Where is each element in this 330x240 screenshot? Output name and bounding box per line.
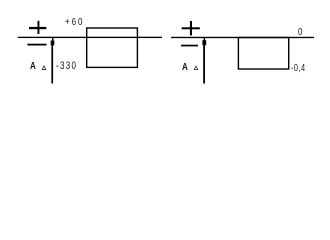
plus sign (right diagram) vertical bar [190,21,192,35]
label -330 (lower deviation, left diagram) [56,61,77,71]
label A (datum, right diagram) [182,63,188,73]
wire: zero line left group [0,0,330,95]
label -0,4 (lower deviation, right diagram) [291,64,305,74]
label 0 (upper deviation, right diagram) [298,28,302,38]
minus sign (right diagram) [181,45,198,47]
datum triangle (right diagram) [194,66,198,70]
arrow stem (left diagram) [51,44,53,84]
arrow head (right diagram, pointing up to zero line) [204,38,206,41]
label +60 (upper deviation, left diagram) [65,18,84,28]
label A (datum, left diagram) [30,62,36,72]
minus sign (left diagram) [27,44,46,46]
zero line (left diagram) [18,37,162,38]
datum triangle (left diagram) [42,66,46,70]
tolerance zone rectangle (left diagram, +60/-330) [87,28,138,67]
plus sign (left diagram) vertical bar [38,21,40,34]
arrow head (left diagram, pointing up to zero line) [52,38,54,41]
wire: zero line right group [171,37,314,38]
plus sign (right diagram) horizontal bar [182,27,200,29]
arrow stem (right diagram) [203,44,205,84]
tolerance zone rectangle (right diagram, 0/-0,4) [238,38,288,70]
plus sign (left diagram) horizontal bar [29,27,46,29]
